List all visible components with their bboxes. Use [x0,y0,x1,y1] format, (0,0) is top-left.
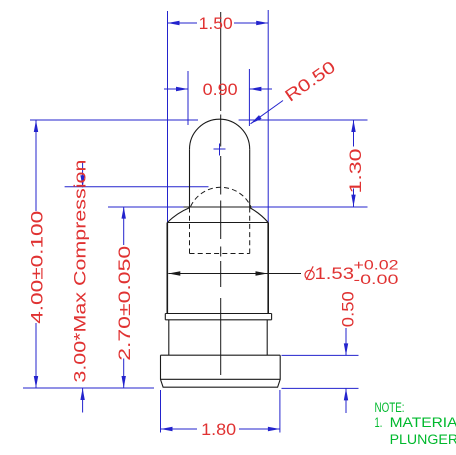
svg-text:4.00±0.100: 4.00±0.100 [27,211,46,324]
wire bottom reference line right [282,387,359,389]
barrel top edge [167,222,268,224]
arrow 4.00 bottom [34,376,38,388]
tail left side [168,320,170,356]
wire 0.50 top extension line [282,354,359,356]
svg-text:1.53: 1.53 [315,264,355,283]
crimp ring bottom [165,319,271,321]
wire 1.30 top extension line [239,119,368,121]
wire 0.90 left extension line [187,71,189,125]
svg-text:MATERIAL: MATERIAL [390,415,456,430]
hidden plunger right side [249,208,251,254]
wire 0.90 dimension line right [249,88,272,90]
arrow 1.30 bottom [351,195,355,207]
svg-text:1.: 1. [375,415,383,430]
svg-text:-0.00: -0.00 [354,272,399,287]
svg-text:1.80: 1.80 [201,420,236,439]
wire 0.50 dimension line [345,328,347,355]
plunger left side [189,149,191,207]
arrow 0.50 bottom (outside, points up) [344,388,348,400]
arrow 1.80 left [161,427,173,431]
wire R0.50 leader [251,101,284,124]
wire 3.00 dimension line bottom tail [82,388,84,413]
wire 1.50 right extension line [267,10,269,222]
svg-text:0.50: 0.50 [338,291,357,327]
svg-text:1.50: 1.50 [199,14,233,33]
arrow 3.00 bottom (outside, points up) [80,388,84,400]
barrel shoulder left arc [167,208,189,223]
svg-text:+0.02: +0.02 [354,257,399,272]
wire 1.50 left extension line [167,11,169,222]
wire 2.70 / 1.30 shared extension line [108,206,184,208]
tail right side [266,320,268,356]
wire 3.00 dimension line top tail [82,162,84,187]
crimp ring right edge [271,314,273,320]
svg-text:2.70±0.050: 2.70±0.050 [115,246,134,361]
svg-text:0.90: 0.90 [203,80,238,99]
wire 0.90 dimension line left [164,88,188,90]
wire 4.00 dimension line [35,120,37,211]
arrow 3.00 top (outside, points down) [80,175,84,187]
svg-text:3.00*Max Compression: 3.00*Max Compression [70,160,89,383]
wire 1.80 left extension line [160,390,162,433]
svg-text:1.30: 1.30 [346,149,365,194]
arrow 2.70 top [122,207,126,219]
wire 3.00 top extension line [65,186,209,188]
arrow 0.90 right (outside, points left) [249,87,261,91]
flange outline [161,355,281,387]
arrow 0.50 top (outside, points down) [344,343,348,355]
wire 1.80 dimension line [161,428,198,430]
arrow 1.80 right [268,427,280,431]
wire 1.30 dimension line [353,120,355,147]
arrow 4.00 top [34,120,38,132]
crimp ring left edge [164,314,166,320]
plunger right side [249,149,251,207]
wire 2.70 dimension line [123,207,125,245]
crimp ring top [165,313,271,315]
wire 0.90 right extension line [248,69,250,126]
barrel left side [166,223,168,314]
wire 1.80 right extension line [279,390,281,433]
svg-text:PLUNGER: PLUNGER [390,432,456,447]
arrow 1.50 left [168,21,180,25]
node plunger radius center mark [214,148,226,150]
barrel right side [267,223,269,314]
centerline [220,12,222,375]
hidden plunger left side [189,208,191,254]
ø1.53 dimension line (black) [168,273,301,275]
arrow R0.50 leader [251,115,262,124]
arrow 0.90 left (outside, points right) [176,87,188,91]
arrow 1.30 top [351,120,355,132]
arrow 2.70 bottom [122,376,126,388]
hidden compressed tip arc [191,187,251,206]
plunger tip arc [190,119,250,149]
svg-text:NOTE:: NOTE: [375,400,405,415]
barrel hole tangent line [184,206,253,208]
wire bottom reference line left [23,387,154,389]
wire 1.50 dimension line [168,22,198,24]
arrow dia1.53 right (black) [256,271,268,275]
wire 4.00 top extension line [30,119,198,121]
hidden plunger bottom [190,253,250,255]
barrel shoulder right arc [250,208,269,223]
arrow 1.50 right [256,21,268,25]
arrow dia1.53 left (black) [168,271,180,275]
diameter symbol [305,270,314,279]
flange chamfer line [161,378,281,380]
